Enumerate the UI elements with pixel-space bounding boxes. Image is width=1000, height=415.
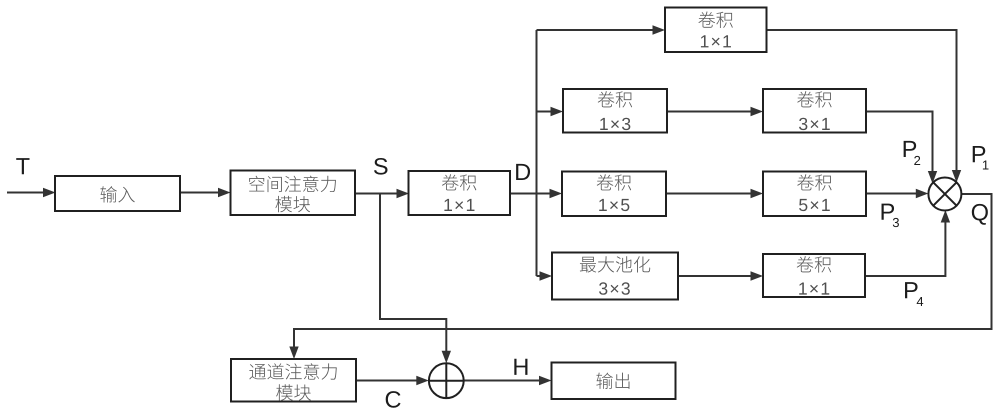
box: 卷积 1x1 (mid) <box>409 171 511 215</box>
box: 空间注意力模块 (spatial attention module) <box>231 171 356 216</box>
wire: trunk -> 卷积1x3 <box>537 111 553 113</box>
wire: 卷积1x1 -> trunk (node D) <box>510 193 537 195</box>
wire: P2 卷积3x1 -> multiply <box>866 112 933 173</box>
wire: 通道注意力模块 -> add circle (node C) <box>356 380 418 382</box>
wire: P3 卷积5x1 -> multiply <box>866 193 917 195</box>
box: 卷积 1x1 (row4) <box>763 254 865 297</box>
label D (node D) <box>516 164 530 180</box>
label H <box>514 359 527 375</box>
box: 卷积 5x1 <box>763 172 866 217</box>
wire: trunk -> top 卷积1x1 <box>537 29 655 31</box>
box: 输入 (input) <box>55 176 180 211</box>
label Q (multiply output) <box>972 204 988 225</box>
label T (input tensor) <box>16 158 29 174</box>
wire: input arrow T -> 输入 <box>7 192 44 194</box>
label P3 <box>882 204 899 227</box>
wire: S branch -> add circle <box>380 194 446 353</box>
wire: 输入 -> 空间注意力模块 <box>180 192 220 194</box>
wire: 卷积1x5 -> 卷积5x1 <box>666 193 752 195</box>
wire: Q multiply -> 通道注意力模块 <box>294 194 992 348</box>
label P1 <box>973 146 989 169</box>
wire: trunk -> 最大池化 <box>537 275 542 277</box>
wire: add circle -> 输出 (node H) <box>464 380 541 382</box>
box: 卷积 3x1 <box>763 89 866 133</box>
wire: 空间注意力模块 -> 卷积1x1 (node S) <box>355 193 398 195</box>
box: 卷积 1x3 <box>563 89 667 133</box>
wire: 最大池化 -> 卷积1x1 <box>678 275 752 277</box>
label C (channel attention output) <box>386 391 401 408</box>
wire: trunk -> 卷积1x5 <box>537 193 552 195</box>
add node (circle with +) <box>429 363 464 398</box>
box: 卷积 1x1 (top branch) <box>665 8 767 53</box>
label P4 <box>905 282 923 306</box>
label P2 <box>904 141 921 165</box>
multiply node Q (circle with X) <box>928 178 961 211</box>
box: 输出 (output) <box>552 363 676 400</box>
label S (node S) <box>374 158 388 175</box>
box: 通道注意力模块 (channel attention module) <box>231 359 356 402</box>
box: 最大池化 3x3 (max pooling) <box>552 253 678 300</box>
wire: trunk vertical <box>536 30 538 276</box>
wire: P1 top 卷积1x1 -> multiply <box>766 30 957 171</box>
wire: 卷积1x3 -> 卷积3x1 <box>667 111 752 113</box>
wire: P4 row4 卷积1x1 -> multiply <box>865 220 945 276</box>
box: 卷积 1x5 <box>562 172 666 217</box>
